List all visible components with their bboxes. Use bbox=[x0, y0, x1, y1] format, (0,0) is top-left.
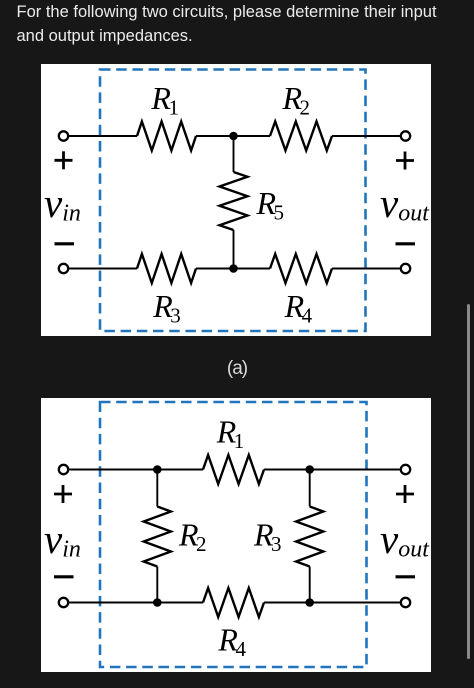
wire: R1 to top-right node bbox=[264, 469, 310, 471]
output terminal bottom-right bbox=[401, 264, 410, 273]
resistor R1 bbox=[203, 455, 264, 484]
caption (a) bbox=[0, 358, 474, 380]
label v_in bbox=[44, 516, 81, 563]
label R2 bbox=[282, 80, 311, 120]
wire: R4 to bottom-right output terminal bbox=[332, 268, 400, 270]
wire: bottom-left node to R4 bbox=[157, 602, 203, 604]
svg-text:R2: R2 bbox=[282, 80, 311, 120]
label R1 bbox=[216, 414, 245, 454]
plus sign output bbox=[396, 152, 414, 170]
label R3 bbox=[253, 517, 282, 557]
svg-text:R5: R5 bbox=[256, 185, 285, 225]
wire: R1 to top node bbox=[196, 135, 270, 137]
label R1 bbox=[150, 80, 179, 120]
svg-text:vout: vout bbox=[380, 180, 430, 227]
resistor R1 bbox=[137, 122, 196, 151]
svg-text:R3: R3 bbox=[253, 517, 282, 557]
question text bbox=[17, 1, 437, 48]
label R4 bbox=[284, 288, 313, 328]
resistor R3 bbox=[296, 507, 323, 567]
wire: top-left node to R2 bbox=[156, 470, 158, 507]
minus sign output bbox=[396, 575, 416, 578]
svg-text:vin: vin bbox=[44, 516, 81, 563]
svg-text:R3: R3 bbox=[152, 288, 181, 328]
dashed two-port boundary box (a) bbox=[100, 70, 366, 332]
svg-text:vout: vout bbox=[380, 516, 430, 563]
label v_in bbox=[44, 180, 81, 227]
wire: top-left input terminal to R1 bbox=[69, 135, 137, 137]
minus sign input bbox=[54, 575, 74, 578]
wire: R4 to bottom-right node bbox=[264, 602, 310, 604]
wire: R5 to bottom node bbox=[233, 230, 235, 269]
svg-text:R1: R1 bbox=[150, 80, 179, 120]
minus sign output bbox=[396, 242, 416, 245]
label R2 bbox=[178, 517, 207, 557]
wire: top node to R5 bbox=[233, 136, 235, 172]
wire: top-left input terminal to left node bbox=[69, 469, 157, 471]
wire: bottom-left input terminal to R3 bbox=[69, 268, 137, 270]
node: bottom junction bbox=[229, 264, 238, 273]
wire: bottom-right node to output terminal bbox=[310, 602, 400, 604]
label R4 bbox=[217, 621, 246, 661]
input terminal top-left bbox=[59, 131, 68, 140]
node: bottom-left junction bbox=[153, 598, 162, 607]
resistor R2 bbox=[270, 122, 332, 151]
wire: R3 to bottom-right node bbox=[309, 567, 311, 603]
resistor R4 bbox=[203, 588, 264, 617]
svg-text:R2: R2 bbox=[178, 517, 207, 557]
wire: top-right node to R3 bbox=[309, 470, 311, 507]
svg-text:R4: R4 bbox=[217, 621, 246, 661]
output terminal bottom-right bbox=[401, 598, 410, 607]
resistor R4 bbox=[270, 254, 332, 283]
plus sign input bbox=[54, 485, 72, 503]
input terminal bottom-left bbox=[59, 598, 68, 607]
output terminal top-right bbox=[401, 465, 410, 474]
resistor R5 bbox=[220, 172, 248, 230]
wire: top-left node to R1 bbox=[157, 469, 203, 471]
svg-text:vin: vin bbox=[44, 180, 81, 227]
dashed two-port boundary box (b) bbox=[100, 402, 367, 667]
svg-text:R1: R1 bbox=[216, 414, 245, 454]
plus sign output bbox=[396, 485, 414, 503]
wire: R2 to bottom-left node bbox=[156, 567, 158, 603]
plus sign input bbox=[55, 151, 73, 169]
input terminal bottom-left bbox=[59, 264, 68, 273]
svg-text:R4: R4 bbox=[284, 288, 313, 328]
wire: R2 to top-right output terminal bbox=[332, 135, 400, 137]
wire: top-right node to output terminal bbox=[310, 469, 400, 471]
circuit (b) panel bbox=[41, 398, 431, 672]
scrollbar thumb bbox=[467, 304, 470, 659]
input terminal top-left bbox=[59, 465, 68, 474]
label R5 bbox=[256, 185, 285, 225]
label R3 bbox=[152, 288, 181, 328]
wire: R3 to bottom node bbox=[196, 268, 270, 270]
resistor R3 bbox=[137, 254, 196, 283]
minus sign input bbox=[55, 242, 75, 245]
resistor R2 bbox=[144, 507, 171, 567]
node: top-left junction bbox=[153, 465, 162, 474]
node: top-right junction bbox=[305, 465, 314, 474]
circuit (a) panel bbox=[41, 64, 431, 336]
node: bottom-right junction bbox=[305, 598, 314, 607]
node: top junction bbox=[229, 132, 238, 141]
label v_out bbox=[380, 180, 430, 227]
wire: bottom-left input terminal to left node bbox=[69, 602, 157, 604]
output terminal top-right bbox=[401, 131, 410, 140]
label v_out bbox=[380, 516, 430, 563]
